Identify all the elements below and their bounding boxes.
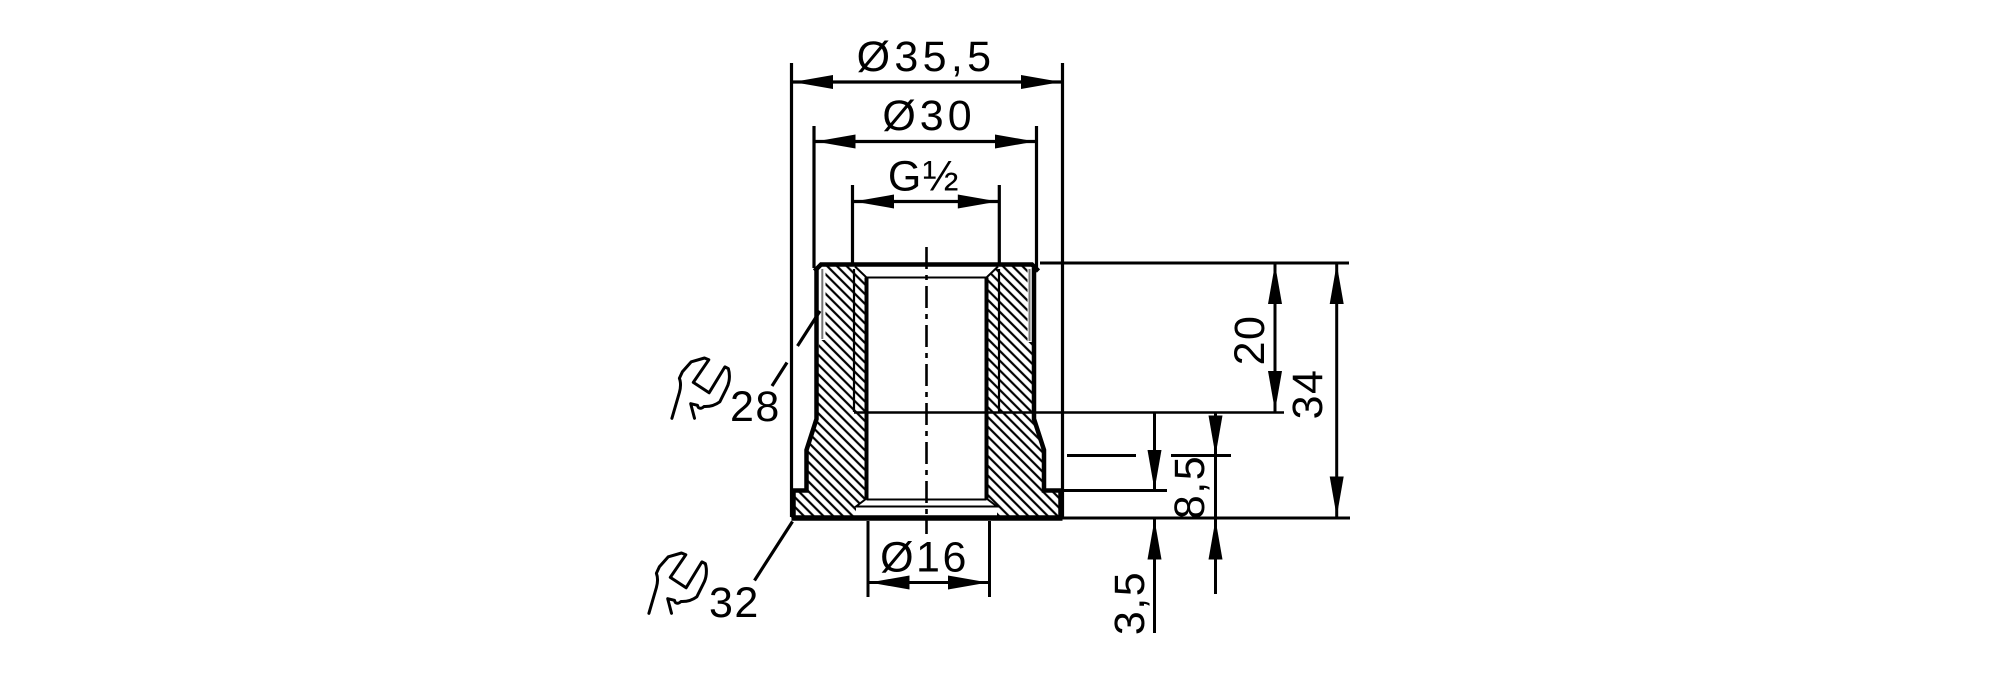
wrench icon 28 <box>672 358 730 418</box>
svg-text:34: 34 <box>1284 369 1332 420</box>
extension line dia16 right <box>988 521 991 597</box>
wrench icon 32 <box>649 553 707 613</box>
svg-text:Ø16: Ø16 <box>880 534 969 582</box>
flat tangency line right <box>1029 269 1031 341</box>
svg-text:32: 32 <box>709 579 760 627</box>
flat tangency line left <box>821 269 823 339</box>
leader line 32 <box>755 522 793 581</box>
part bottom face <box>792 515 1063 521</box>
extension line dia30 right <box>1035 126 1038 268</box>
bottom chamfer <box>856 499 997 507</box>
svg-text:28: 28 <box>730 383 781 431</box>
extension line dia16 left <box>867 521 870 597</box>
thread major line right <box>998 269 1000 412</box>
thread end line and extension 20 <box>854 411 1284 414</box>
extension line top right <box>1040 262 1349 265</box>
extension line dia30 left <box>812 126 815 268</box>
extension line G1/2 right <box>998 185 1001 263</box>
extension line bottom right <box>1063 517 1351 520</box>
svg-text:8,5: 8,5 <box>1166 455 1214 519</box>
dimension line dia30 <box>814 140 1037 143</box>
dimension 3.5 <box>1153 413 1156 491</box>
centerline <box>925 247 928 534</box>
extension line dia35.5 left <box>790 63 793 517</box>
dimension line dia35.5 <box>792 80 1063 83</box>
extension line 8.5 top <box>1067 454 1136 457</box>
svg-text:3,5: 3,5 <box>1106 571 1154 635</box>
bore line left <box>865 278 869 499</box>
dimension line G1/2 <box>853 200 1000 203</box>
extension line 3.5 top <box>1062 489 1167 492</box>
top chamfer <box>855 267 998 278</box>
svg-text:G½: G½ <box>888 153 960 201</box>
dimension 20 <box>1274 263 1277 412</box>
bore line right <box>985 278 989 499</box>
dimension line dia16 <box>868 581 990 584</box>
part top face <box>815 265 1039 272</box>
dimension 8.5 <box>1214 413 1217 519</box>
extension line G1/2 left <box>851 185 854 263</box>
part right outer wall <box>1034 268 1061 518</box>
extension line dia35.5 right <box>1061 63 1064 517</box>
svg-text:Ø35,5: Ø35,5 <box>857 33 996 81</box>
hatching left wall <box>794 266 867 516</box>
part left outer wall <box>794 268 817 518</box>
svg-text:Ø30: Ø30 <box>882 92 975 140</box>
hatching right wall <box>987 266 1060 516</box>
thread major line left <box>853 269 855 412</box>
leader line 28 <box>772 363 787 387</box>
dimension 34 <box>1335 263 1338 518</box>
svg-text:20: 20 <box>1226 315 1274 366</box>
